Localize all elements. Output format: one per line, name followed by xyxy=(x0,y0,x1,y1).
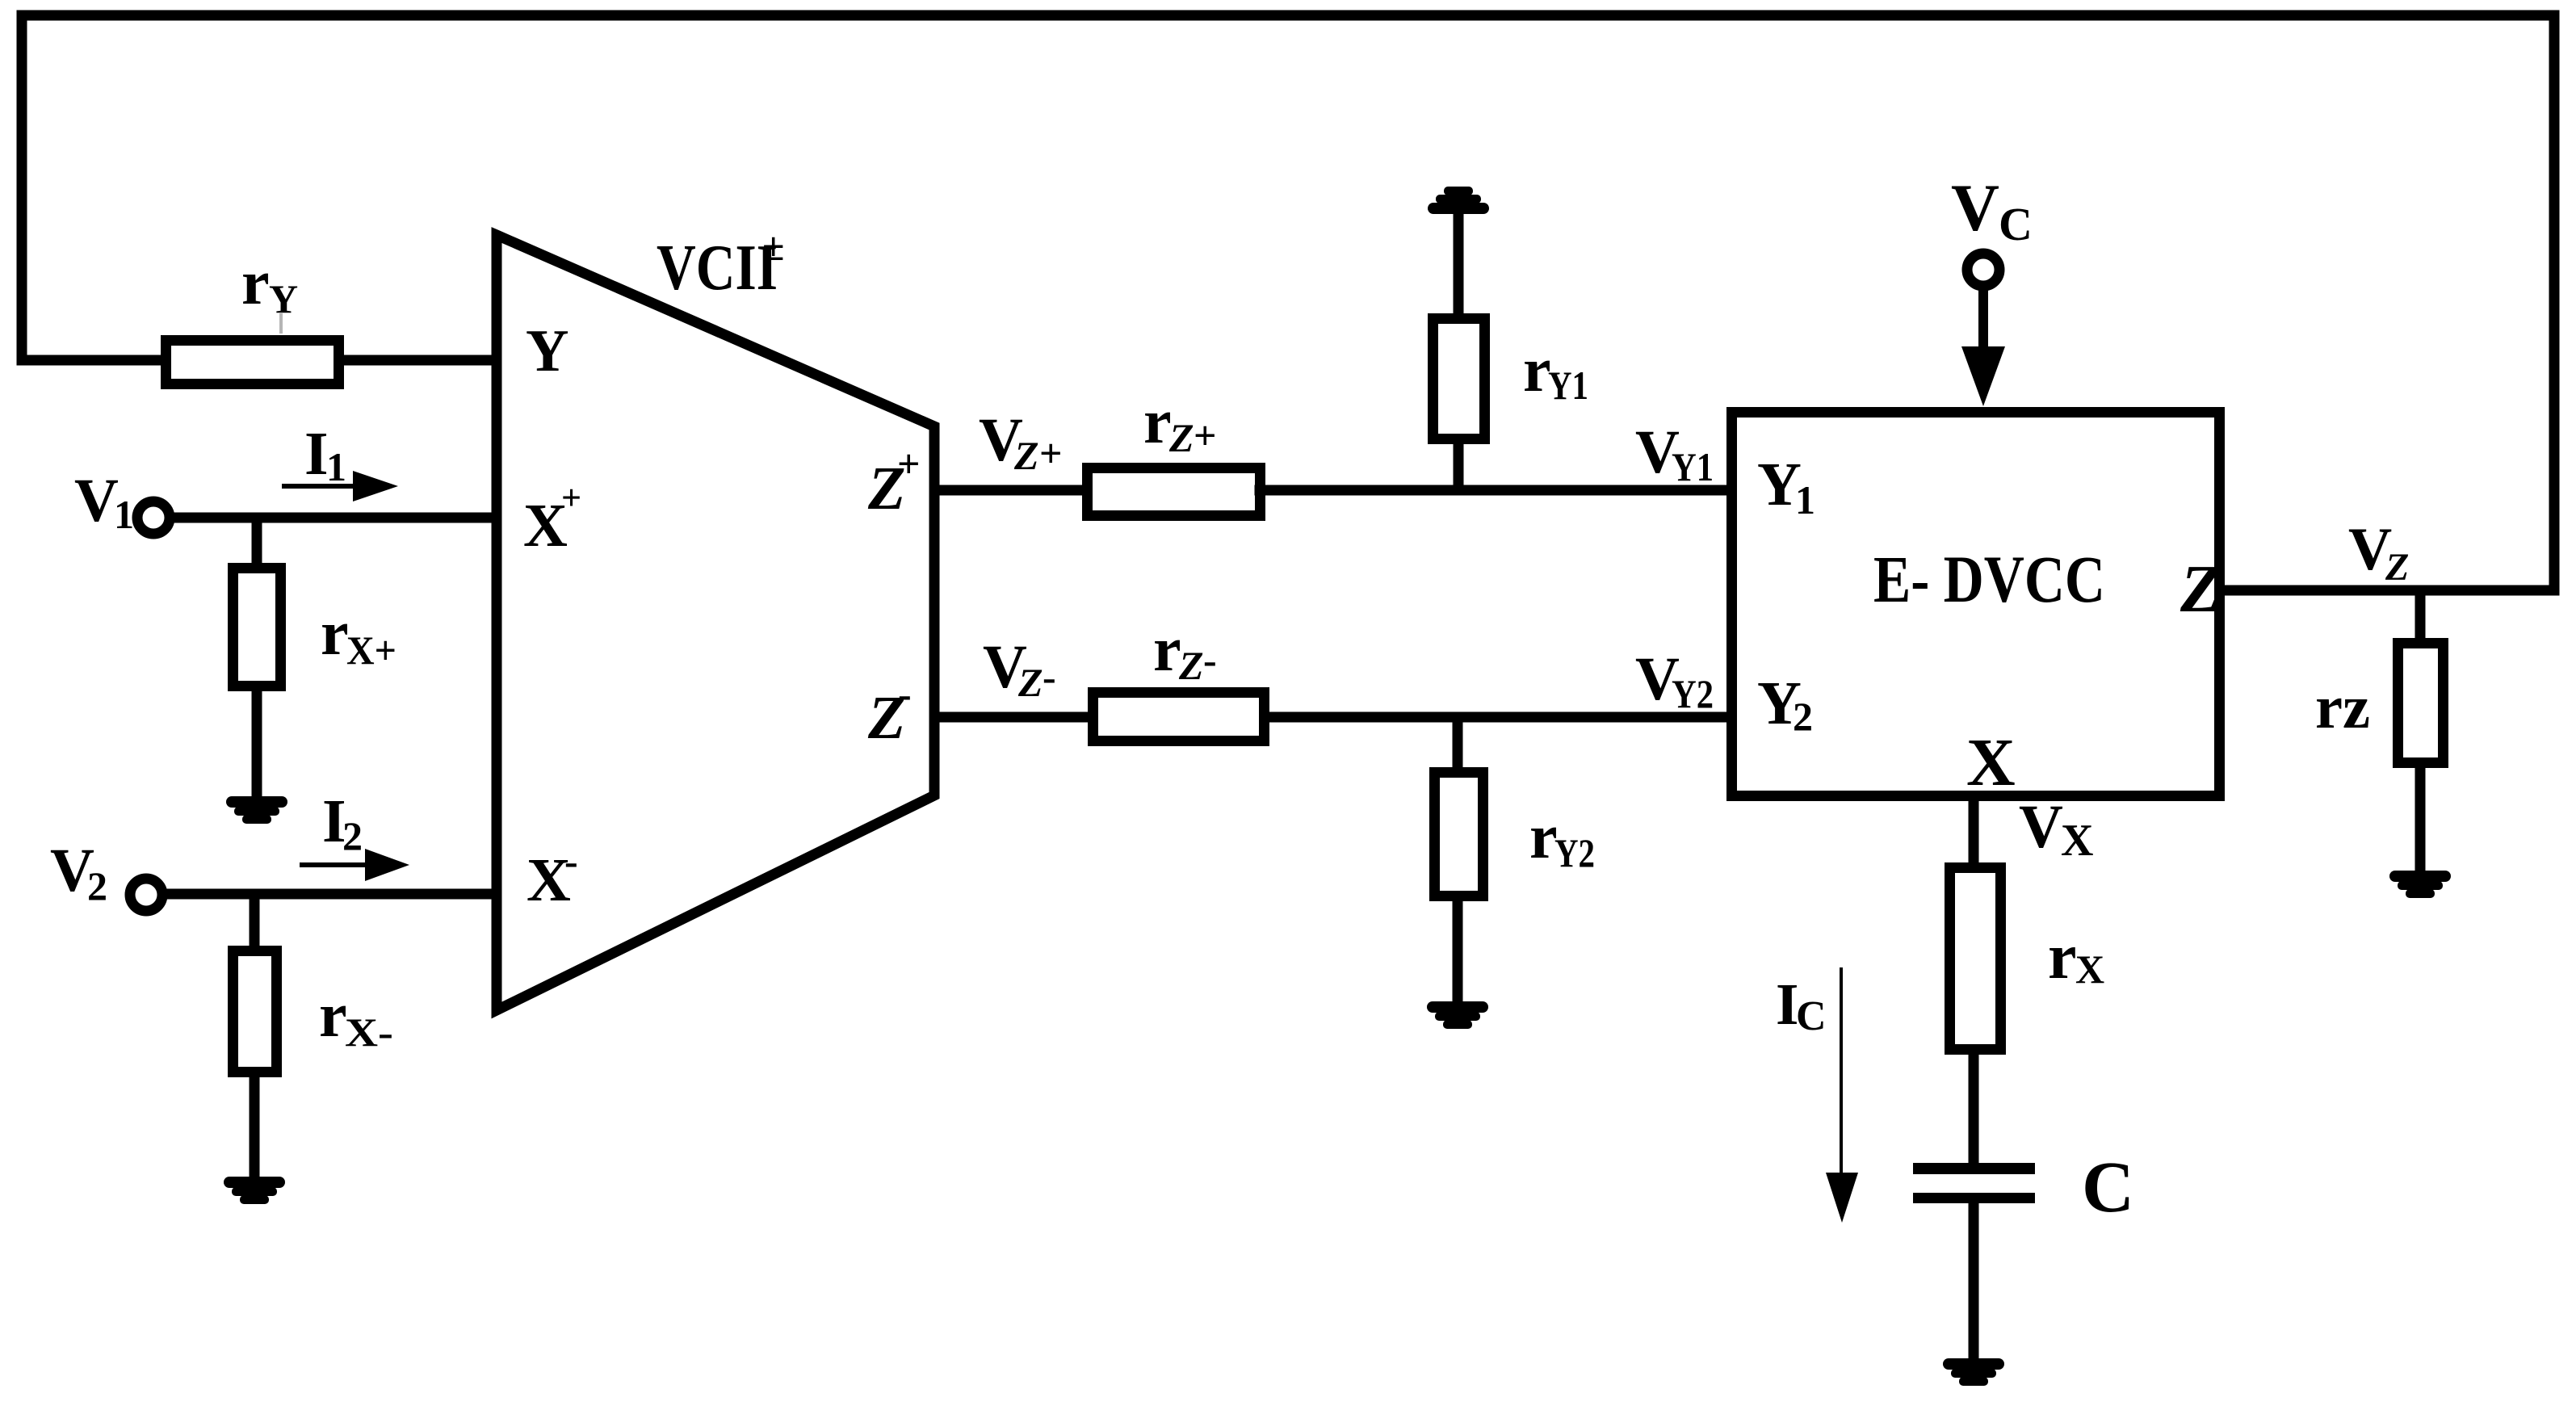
wire Z+ stub xyxy=(934,485,1087,496)
wire rZ- to Y2 terminal xyxy=(1265,712,1726,723)
svg-text:2: 2 xyxy=(342,813,363,858)
svg-text:C: C xyxy=(1999,198,2033,250)
svg-text:Z: Z xyxy=(1017,660,1043,705)
svg-text:Z: Z xyxy=(1013,433,1039,478)
svg-text:2: 2 xyxy=(1793,694,1813,739)
wire rX+ to ground xyxy=(252,686,262,799)
svg-text:r: r xyxy=(1529,801,1558,871)
ground below capacitor xyxy=(1943,1358,2004,1386)
resistor rY xyxy=(166,341,339,384)
wire rz to ground xyxy=(2415,763,2426,874)
svg-text:1: 1 xyxy=(114,492,134,537)
svg-text:-: - xyxy=(564,838,578,883)
wire rX to capacitor xyxy=(1969,1050,1979,1164)
wire from left border to rY xyxy=(22,355,166,366)
ground above rY1 (inverted) xyxy=(1428,187,1489,214)
svg-text:1: 1 xyxy=(1795,477,1815,522)
svg-text:-: - xyxy=(1203,637,1217,682)
svg-text:Y2: Y2 xyxy=(1672,671,1714,716)
resistor rY1 xyxy=(1433,319,1485,439)
wire feedback right segment xyxy=(2549,15,2560,590)
svg-text:C: C xyxy=(2082,1148,2134,1227)
svg-text:C: C xyxy=(1796,993,1827,1039)
wire junction stub to rX- xyxy=(250,894,260,950)
svg-text:1: 1 xyxy=(326,444,346,489)
svg-text:Y: Y xyxy=(269,276,298,321)
svg-text:r: r xyxy=(2048,921,2077,992)
svg-text:r: r xyxy=(319,980,347,1050)
svg-text:r: r xyxy=(241,247,270,317)
wire rY1 lower stub xyxy=(1454,439,1464,490)
svg-text:Y: Y xyxy=(526,318,568,384)
svg-text:E- DVCC: E- DVCC xyxy=(1873,542,2105,616)
current arrow I2 xyxy=(300,862,367,867)
current arrow IC xyxy=(1840,967,1843,1175)
svg-text:r: r xyxy=(321,598,349,668)
wire VC arrow shaft xyxy=(1978,289,1988,351)
svg-text:r: r xyxy=(1143,386,1172,456)
wire capacitor to ground xyxy=(1969,1202,1979,1360)
svg-text:+: + xyxy=(561,478,581,518)
wire rz stub xyxy=(2415,590,2426,643)
current arrow I1 xyxy=(282,484,355,489)
svg-text:Y2: Y2 xyxy=(1554,830,1595,875)
svg-text:V: V xyxy=(1951,170,1999,245)
capacitor C bottom plate xyxy=(1913,1193,2035,1203)
wire rY2 to ground xyxy=(1453,896,1463,1005)
wire V1 to X+ terminal xyxy=(170,513,494,523)
svg-text:X: X xyxy=(2061,816,2093,866)
svg-text:Z: Z xyxy=(1168,415,1194,460)
resistor rY2 xyxy=(1435,773,1483,896)
svg-text:±: ± xyxy=(762,224,784,269)
ground below rX- xyxy=(224,1177,285,1204)
capacitor C top plate xyxy=(1913,1163,2035,1174)
resistor rZ- xyxy=(1093,693,1265,741)
ground below rz xyxy=(2389,871,2451,898)
wire rY1 to top ground xyxy=(1454,211,1464,318)
wire rY2 upper stub xyxy=(1453,717,1463,772)
svg-text:rz: rz xyxy=(2315,674,2370,741)
svg-text:-: - xyxy=(1043,654,1056,699)
svg-text:Y1: Y1 xyxy=(1548,363,1588,408)
svg-text:X-: X- xyxy=(345,1009,393,1055)
svg-text:X+: X+ xyxy=(346,627,396,673)
resistor rz xyxy=(2398,644,2444,763)
node V2 terminal circle xyxy=(130,879,162,911)
VC arrowhead xyxy=(1961,346,2005,406)
svg-text:-: - xyxy=(898,671,912,716)
wire feedback left segment xyxy=(17,15,27,360)
svg-text:r: r xyxy=(1523,334,1551,405)
wire rX- to ground xyxy=(250,1072,260,1180)
wire Z output to feedback xyxy=(2225,585,2554,596)
wire X stub xyxy=(1969,801,1979,867)
svg-text:2: 2 xyxy=(87,863,107,909)
leader tick under rY label xyxy=(279,313,283,334)
resistor rX xyxy=(1950,868,2001,1050)
svg-text:Z: Z xyxy=(1178,643,1204,688)
svg-text:X: X xyxy=(1966,725,2016,800)
svg-text:Z: Z xyxy=(2180,552,2221,627)
ground below rX+ xyxy=(226,796,287,824)
wire feedback top segment xyxy=(22,10,2554,21)
svg-text:r: r xyxy=(1153,614,1181,684)
svg-text:+: + xyxy=(1194,413,1217,458)
svg-text:V: V xyxy=(2019,793,2063,861)
resistor rZ+ xyxy=(1088,468,1261,516)
svg-text:Z: Z xyxy=(2385,546,2409,589)
wire rZ+ to Y1 terminal xyxy=(1260,485,1726,496)
resistor rX+ xyxy=(233,569,281,686)
svg-text:+: + xyxy=(1039,430,1063,476)
E-DVCC block xyxy=(1732,413,2220,796)
resistor rX- xyxy=(233,951,277,1072)
node V1 terminal circle xyxy=(137,501,170,534)
node VC terminal circle xyxy=(1967,254,1999,286)
svg-text:+: + xyxy=(897,441,921,486)
wire Z- stub xyxy=(934,712,1093,723)
svg-text:V: V xyxy=(74,467,119,535)
ground below rY2 xyxy=(1427,1001,1488,1029)
wire V2 to X- terminal xyxy=(168,889,494,900)
wire rY to Y terminal xyxy=(339,355,494,366)
wire junction stub to rX+ xyxy=(252,518,262,568)
VCII block trapezoid xyxy=(497,235,934,1010)
svg-text:X: X xyxy=(2075,946,2104,992)
svg-text:Y1: Y1 xyxy=(1672,444,1714,489)
svg-text:VCII: VCII xyxy=(657,233,778,304)
svg-text:I: I xyxy=(304,420,329,488)
